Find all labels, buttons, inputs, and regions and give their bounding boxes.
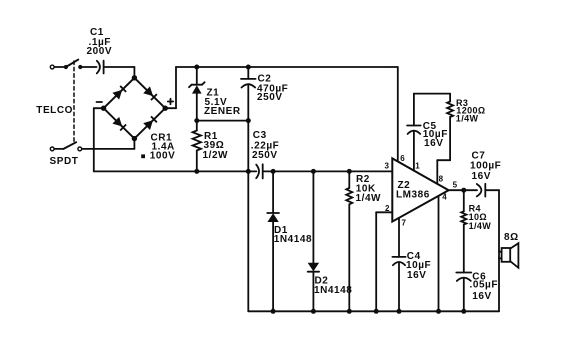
svg-text:1: 1	[415, 161, 420, 170]
svg-text:8Ω: 8Ω	[504, 232, 519, 243]
svg-text:4: 4	[442, 193, 447, 202]
svg-text:1/2W: 1/2W	[203, 150, 229, 161]
svg-text:1/4W: 1/4W	[456, 114, 479, 124]
svg-text:100V: 100V	[150, 151, 176, 162]
svg-text:3: 3	[385, 162, 390, 171]
svg-text:8: 8	[439, 174, 444, 183]
svg-text:2: 2	[385, 204, 390, 213]
svg-text:.05µF: .05µF	[470, 280, 499, 291]
svg-text:1N4148: 1N4148	[274, 234, 312, 245]
svg-text:16V: 16V	[472, 171, 491, 182]
svg-text:SPDT: SPDT	[50, 156, 79, 167]
svg-text:200V: 200V	[87, 46, 113, 57]
svg-text:16V: 16V	[472, 291, 491, 302]
svg-text:7: 7	[402, 218, 407, 227]
svg-text:250V: 250V	[257, 92, 283, 103]
svg-text:1N4148: 1N4148	[314, 285, 352, 296]
svg-text:TELCO: TELCO	[36, 105, 73, 116]
svg-text:1/4W: 1/4W	[356, 193, 382, 204]
svg-text:100µF: 100µF	[470, 160, 501, 171]
svg-text:5: 5	[453, 181, 458, 190]
svg-text:250V: 250V	[252, 150, 278, 161]
svg-text:1/4W: 1/4W	[469, 221, 492, 231]
svg-text:16V: 16V	[407, 270, 426, 281]
svg-text:6: 6	[400, 154, 405, 163]
svg-text:ZENER: ZENER	[204, 106, 241, 117]
svg-text:16V: 16V	[424, 138, 443, 149]
svg-text:LM386: LM386	[396, 189, 430, 200]
